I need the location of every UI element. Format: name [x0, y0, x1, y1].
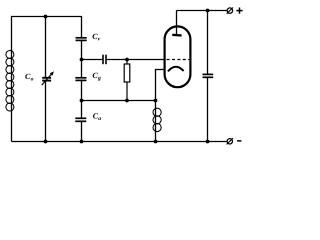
wire: output branch lower	[207, 77, 209, 141]
capacitor C_v	[76, 38, 87, 41]
wire: anode lead	[176, 11, 178, 36]
wire: cathode lead	[156, 70, 168, 101]
wire: anode top rail	[177, 10, 228, 12]
wire: grid row left of coupling cap	[82, 59, 103, 61]
wire: C_v to C_g	[81, 40, 83, 77]
capacitor output	[203, 74, 214, 77]
node: top rail / C_o junction	[44, 15, 48, 19]
triode V1 envelope	[165, 26, 191, 87]
wire: C_g to C_a	[81, 80, 83, 118]
node: bottom rail C_a	[80, 140, 84, 144]
node: output junction top	[206, 9, 210, 13]
triode grid (dashed)	[167, 59, 191, 61]
wire: C_o top lead	[45, 17, 47, 78]
resistor R grid-leak	[124, 60, 130, 101]
wire: C_a bottom lead	[81, 121, 83, 141]
wire: C_o bottom lead	[45, 81, 47, 142]
inductor L tank coil	[6, 51, 14, 112]
capacitor C_a	[75, 118, 86, 121]
terminal − (negative)	[227, 138, 242, 144]
wire: cathode row	[82, 100, 156, 102]
wire: grid row to tube	[106, 59, 164, 61]
node: grid junction	[80, 58, 84, 62]
wire: bottom rail	[12, 141, 228, 143]
node: choke bottom	[154, 140, 158, 144]
svg-text:o: o	[31, 76, 34, 82]
svg-text:v: v	[98, 36, 101, 42]
node: bottom rail C_o	[44, 140, 48, 144]
variable capacitor C_o	[42, 71, 54, 85]
triode anode plate	[172, 34, 181, 37]
coupling capacitor (grid)	[103, 55, 106, 64]
svg-text:g: g	[97, 76, 101, 82]
node: resistor bottom	[125, 99, 129, 103]
svg-text:a: a	[98, 116, 101, 122]
RF choke in cathode	[153, 101, 161, 142]
node: cathode/choke junction	[154, 99, 158, 103]
node: bottom rail output branch	[206, 140, 210, 144]
capacitor C_g	[75, 78, 86, 81]
wire: output branch upper	[207, 11, 209, 75]
triode cathode	[168, 67, 184, 72]
terminal + (plate supply)	[227, 8, 243, 14]
node: cathode row junction	[80, 99, 84, 103]
wire: top-left rail with end drops	[12, 17, 82, 52]
node: resistor top	[125, 58, 129, 62]
wire: inductor vertical lead	[11, 49, 13, 142]
